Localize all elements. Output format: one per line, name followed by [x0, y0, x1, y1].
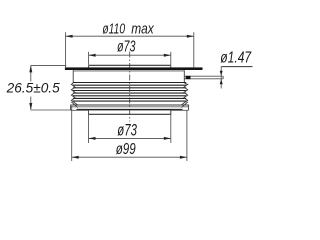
svg-text:ø73: ø73	[117, 38, 136, 55]
svg-text:26.5±0.5: 26.5±0.5	[6, 81, 61, 96]
svg-text:ø73: ø73	[117, 122, 137, 140]
svg-text:max: max	[131, 21, 155, 38]
svg-text:ø99: ø99	[116, 141, 136, 158]
svg-text:ø110: ø110	[102, 21, 125, 38]
svg-text:ø1.47: ø1.47	[220, 49, 252, 66]
